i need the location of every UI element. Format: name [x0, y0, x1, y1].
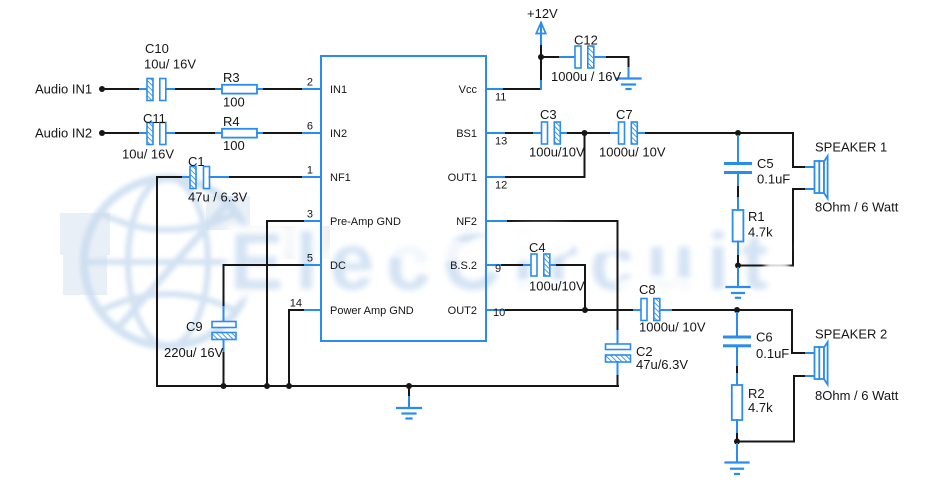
wire R2 to ground node [736, 420, 738, 434]
svg-text:NF1: NF1 [330, 172, 351, 184]
svg-text:C11: C11 [143, 111, 166, 126]
wire C1 to pin 1 [210, 176, 231, 178]
svg-text:14: 14 [290, 298, 302, 310]
wire Vcc pin 11 to +12V [486, 88, 504, 90]
svg-text:9: 9 [495, 263, 501, 275]
watermark gray blocks [60, 196, 330, 295]
speaker SPEAKER 1 [815, 156, 828, 199]
ground at R2 [726, 444, 749, 474]
svg-text:0.1uF: 0.1uF [756, 346, 789, 361]
watermark logo circle [84, 178, 252, 346]
wire node to speaker2 plus [737, 310, 806, 353]
wire ground bus [157, 385, 618, 387]
node bus junction pin3 [264, 383, 270, 389]
svg-text:3: 3 [307, 209, 313, 221]
svg-text:12: 12 [495, 180, 507, 192]
svg-text:47u/6.3V: 47u/6.3V [636, 357, 688, 372]
svg-text:IN2: IN2 [330, 128, 347, 140]
wire C9 to bus [223, 340, 225, 354]
capacitor C8 [641, 299, 660, 321]
svg-text:OUT2: OUT2 [448, 305, 477, 317]
wire C5 to R1 [737, 174, 739, 187]
node Vcc junction [538, 54, 544, 60]
svg-text:1000u / 16V: 1000u / 16V [551, 69, 621, 84]
node speaker1 top junction [735, 130, 741, 136]
svg-text:R2: R2 [748, 386, 765, 401]
node Audio IN1 terminal [99, 86, 105, 92]
wire C4 down to OUT2 line [550, 264, 557, 266]
svg-text:100u/10V: 100u/10V [529, 145, 585, 160]
wire NF1 left leg down to ground bus [156, 177, 158, 386]
wire C7 to speaker1 node [637, 132, 646, 134]
svg-text:1000u/ 10V: 1000u/ 10V [639, 320, 706, 335]
capacitor C4 [531, 254, 550, 276]
wire DC pin 5 to C9 [303, 264, 321, 266]
wire node to speaker1 plus [738, 133, 806, 167]
wire NF1 to C1 [157, 176, 183, 178]
svg-text:OUT1: OUT1 [448, 172, 477, 184]
watermark white washes [385, 205, 705, 302]
capacitor C1 [190, 167, 210, 189]
svg-text:Audio IN1: Audio IN1 [35, 82, 92, 97]
wire C12 to ground [594, 56, 607, 58]
wire Audio IN2 to C11 [104, 132, 140, 134]
svg-text:DC: DC [330, 260, 346, 272]
svg-text:0.1uF: 0.1uF [757, 172, 790, 187]
node speaker2 top junction [734, 307, 740, 313]
svg-text:C6: C6 [756, 330, 773, 345]
svg-text:Power Amp GND: Power Amp GND [330, 305, 414, 317]
capacitor C9 [212, 322, 236, 340]
svg-text:1000u/ 10V: 1000u/ 10V [599, 145, 666, 160]
svg-text:R1: R1 [748, 209, 765, 224]
capacitor C12 [575, 46, 594, 68]
node bus junction ground [406, 383, 412, 389]
svg-text:11: 11 [495, 92, 506, 104]
wire OUT1 pin 12 up to node [486, 176, 506, 178]
watermark white smear over R1 wire [764, 261, 790, 273]
svg-text:R4: R4 [223, 114, 240, 129]
node C3/C7/OUT1 junction [582, 130, 588, 136]
svg-text:R3: R3 [223, 70, 240, 85]
svg-text:47u / 6.3V: 47u / 6.3V [188, 190, 248, 205]
svg-text:100: 100 [223, 95, 245, 110]
capacitor C7 [619, 122, 638, 144]
svg-text:NF2: NF2 [456, 216, 477, 228]
svg-text:BS1: BS1 [456, 128, 477, 140]
node C4/OUT2 junction [582, 307, 588, 313]
svg-text:13: 13 [495, 136, 507, 148]
wire C11 to R4 [166, 132, 176, 134]
capacitor C3 [542, 122, 561, 144]
watermark white smear right of speaker1 feed [796, 238, 848, 256]
wire Pre-Amp GND pin 3 down to bus [303, 220, 321, 222]
node bus junction C9 [221, 383, 227, 389]
wire C2 to bus [617, 362, 619, 376]
wire R4 to pin 6 [257, 132, 264, 134]
svg-text:C9: C9 [186, 319, 203, 334]
svg-text:Audio IN2: Audio IN2 [35, 126, 92, 141]
capacitor C10 [147, 79, 166, 101]
svg-text:8Ohm / 6 Watt: 8Ohm / 6 Watt [815, 388, 899, 403]
watermark white smear below NF2 wire [495, 223, 585, 241]
capacitor C6 [723, 336, 751, 348]
watermark text glow [230, 217, 780, 306]
wire R3 to pin 2 [257, 88, 264, 90]
speaker SPEAKER 2 [815, 342, 828, 385]
svg-text:C3: C3 [540, 107, 557, 122]
svg-text:10u/ 16V: 10u/ 16V [144, 57, 196, 72]
wire OUT2 pin 10 to C8 [486, 309, 506, 311]
svg-text:C12: C12 [574, 33, 598, 48]
wire C8 to speaker2 node [660, 309, 673, 311]
svg-text:Pre-Amp GND: Pre-Amp GND [330, 216, 401, 228]
svg-text:100u/10V: 100u/10V [529, 279, 585, 294]
capacitor C5 [724, 162, 752, 174]
svg-text:C8: C8 [639, 282, 656, 297]
power +12V arrow [536, 23, 546, 34]
ground main at bus [397, 386, 421, 419]
node Audio IN2 terminal [99, 130, 105, 136]
svg-text:SPEAKER 1: SPEAKER 1 [815, 140, 887, 155]
svg-text:C7: C7 [616, 107, 633, 122]
svg-text:4.7k: 4.7k [748, 400, 773, 415]
svg-text:SPEAKER 2: SPEAKER 2 [815, 327, 887, 342]
svg-text:6: 6 [307, 121, 313, 133]
wire node to C12 [544, 56, 560, 58]
resistor R1 [733, 210, 744, 242]
watermark text [230, 217, 780, 306]
svg-text:8Ohm / 6 Watt: 8Ohm / 6 Watt [815, 200, 899, 215]
wire C10 to R3 [166, 88, 176, 90]
svg-text:220u/ 16V: 220u/ 16V [164, 345, 224, 360]
node R2 bottom junction [734, 439, 740, 445]
svg-text:C1: C1 [188, 154, 205, 169]
wire BS1 pin 13 to C3 [486, 132, 506, 134]
svg-text:Vcc: Vcc [459, 84, 478, 96]
svg-text:1: 1 [307, 165, 313, 177]
wire R1 to ground node [737, 242, 739, 257]
capacitor C11 [147, 123, 166, 145]
svg-text:2: 2 [307, 77, 313, 89]
wire C6 to R2 [736, 348, 738, 367]
svg-text:10: 10 [493, 307, 505, 319]
wire C3 to node [560, 132, 568, 134]
wire B.S.2 pin 9 to C4 [486, 264, 502, 266]
svg-text:100: 100 [223, 138, 245, 153]
wire Power Amp GND pin 14 down to bus [303, 309, 321, 311]
svg-text:C10: C10 [145, 41, 169, 56]
resistor R2 [732, 385, 743, 420]
node R1 bottom junction [735, 263, 741, 269]
svg-text:5: 5 [307, 253, 313, 265]
svg-text:C4: C4 [529, 240, 546, 255]
svg-text:B.S.2: B.S.2 [450, 260, 477, 272]
wire node to speaker1 minus [738, 189, 806, 266]
resistor R4 [222, 129, 257, 138]
ground at C12 [617, 79, 641, 90]
op-amp IC U1 body [321, 56, 486, 341]
capacitor C2 [606, 344, 631, 362]
node bus junction pin14 [286, 383, 292, 389]
svg-text:IN1: IN1 [330, 84, 347, 96]
ground at R1 [727, 268, 750, 298]
svg-text:+12V: +12V [527, 6, 558, 21]
resistor R3 [222, 85, 257, 94]
svg-text:10u/ 16V: 10u/ 16V [122, 147, 174, 162]
svg-text:4.7k: 4.7k [748, 225, 773, 240]
wire node to speaker2 minus [737, 376, 806, 442]
wire node down to C6 [736, 313, 738, 336]
wire NF2 pin to C2 [486, 220, 508, 222]
wire Audio IN1 to C10 [104, 88, 140, 90]
svg-text:C5: C5 [757, 156, 774, 171]
wire node down to C5 [737, 136, 739, 162]
